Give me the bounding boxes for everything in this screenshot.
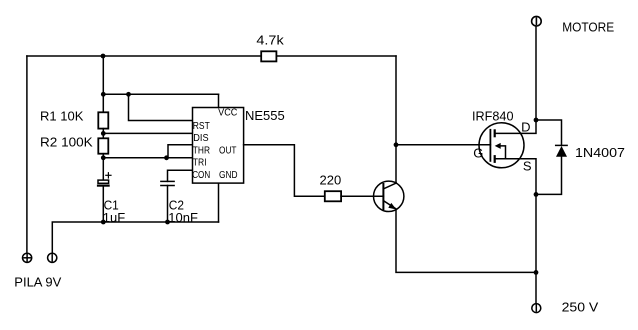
wire drain — [495, 120, 536, 133]
wire below R2 to C1 — [102, 154, 104, 180]
svg-text:RST: RST — [193, 121, 210, 132]
resistor 4.7k — [261, 51, 276, 61]
wire collector drop — [395, 56, 397, 183]
svg-text:250 V: 250 V — [562, 300, 599, 315]
node RST branch junction — [126, 92, 131, 97]
node DIS junction — [101, 131, 106, 136]
wire R1-R2 link — [102, 129, 104, 139]
svg-text:TRI: TRI — [193, 158, 207, 169]
wire GND pin drop — [218, 183, 220, 222]
svg-text:G: G — [473, 145, 483, 160]
wire emitter — [396, 209, 536, 272]
svg-text:MOTORE: MOTORE — [562, 20, 614, 35]
diode D1 1N4007 — [536, 120, 567, 194]
wire bottom rail — [52, 222, 218, 253]
wire DIS — [103, 132, 192, 134]
svg-text:GND: GND — [219, 170, 238, 181]
svg-text:S: S — [523, 159, 532, 174]
svg-text:220: 220 — [320, 172, 342, 187]
svg-text:VCC: VCC — [218, 108, 237, 119]
svg-text:1uF: 1uF — [103, 210, 125, 225]
node top rail / divider junction — [101, 54, 106, 59]
wire right rail lower — [535, 194, 537, 303]
wire TRI — [103, 157, 192, 159]
wire top rail right segment — [276, 55, 396, 57]
svg-text:IRF840: IRF840 — [472, 108, 514, 123]
wire CON — [168, 170, 193, 181]
resistor R1 — [98, 112, 108, 128]
terminal 250V — [532, 304, 541, 313]
transistor Q1 — [374, 181, 404, 211]
wire divider vertical upper — [102, 56, 104, 112]
wire THR link — [168, 145, 193, 158]
svg-text:10nF: 10nF — [168, 210, 198, 225]
svg-text:4.7k: 4.7k — [256, 32, 284, 47]
transistor Q2 IRF840 — [479, 123, 524, 168]
capacitor C2 — [161, 181, 174, 222]
node C1 bottom junction — [101, 220, 106, 225]
node emitter-rail junction — [534, 270, 539, 275]
svg-text:NE555: NE555 — [245, 108, 285, 123]
wire left rail — [26, 56, 28, 253]
terminal battery positive — [23, 253, 32, 262]
svg-text:1N4007: 1N4007 — [575, 145, 625, 160]
svg-text:D: D — [521, 119, 530, 134]
svg-text:R1 10K: R1 10K — [40, 108, 84, 123]
resistor R2 — [98, 138, 108, 153]
wire VCC feed horizontal — [103, 93, 218, 95]
node C2 bottom junction — [165, 220, 170, 225]
resistor 220 — [325, 191, 341, 201]
terminal motor positive — [532, 16, 542, 26]
node TRI junction — [101, 155, 106, 160]
wire VCC pin drop — [218, 94, 220, 107]
terminal battery negative — [48, 253, 57, 262]
op-amp U1 NE555 body — [193, 108, 244, 184]
node source junction — [534, 192, 539, 197]
wire base — [341, 195, 383, 197]
svg-text:PILA 9V: PILA 9V — [14, 274, 61, 289]
svg-text:R2 100K: R2 100K — [40, 135, 93, 150]
wire OUT — [244, 145, 325, 197]
node VCC feed junction — [101, 92, 106, 97]
node drain junction — [534, 118, 539, 123]
node collector-gate junction — [394, 142, 399, 147]
svg-text:DIS: DIS — [193, 133, 209, 144]
svg-text:OUT: OUT — [219, 146, 237, 157]
wire top rail left segment — [27, 55, 261, 57]
wire motor drop — [535, 26, 537, 120]
svg-text:THR: THR — [193, 146, 210, 157]
wire source — [495, 159, 536, 195]
capacitor C1 — [98, 173, 111, 222]
svg-text:CON: CON — [192, 170, 210, 181]
wire RST branch — [129, 94, 193, 120]
wire gate feed — [396, 144, 490, 146]
node THR link junction — [164, 155, 169, 160]
